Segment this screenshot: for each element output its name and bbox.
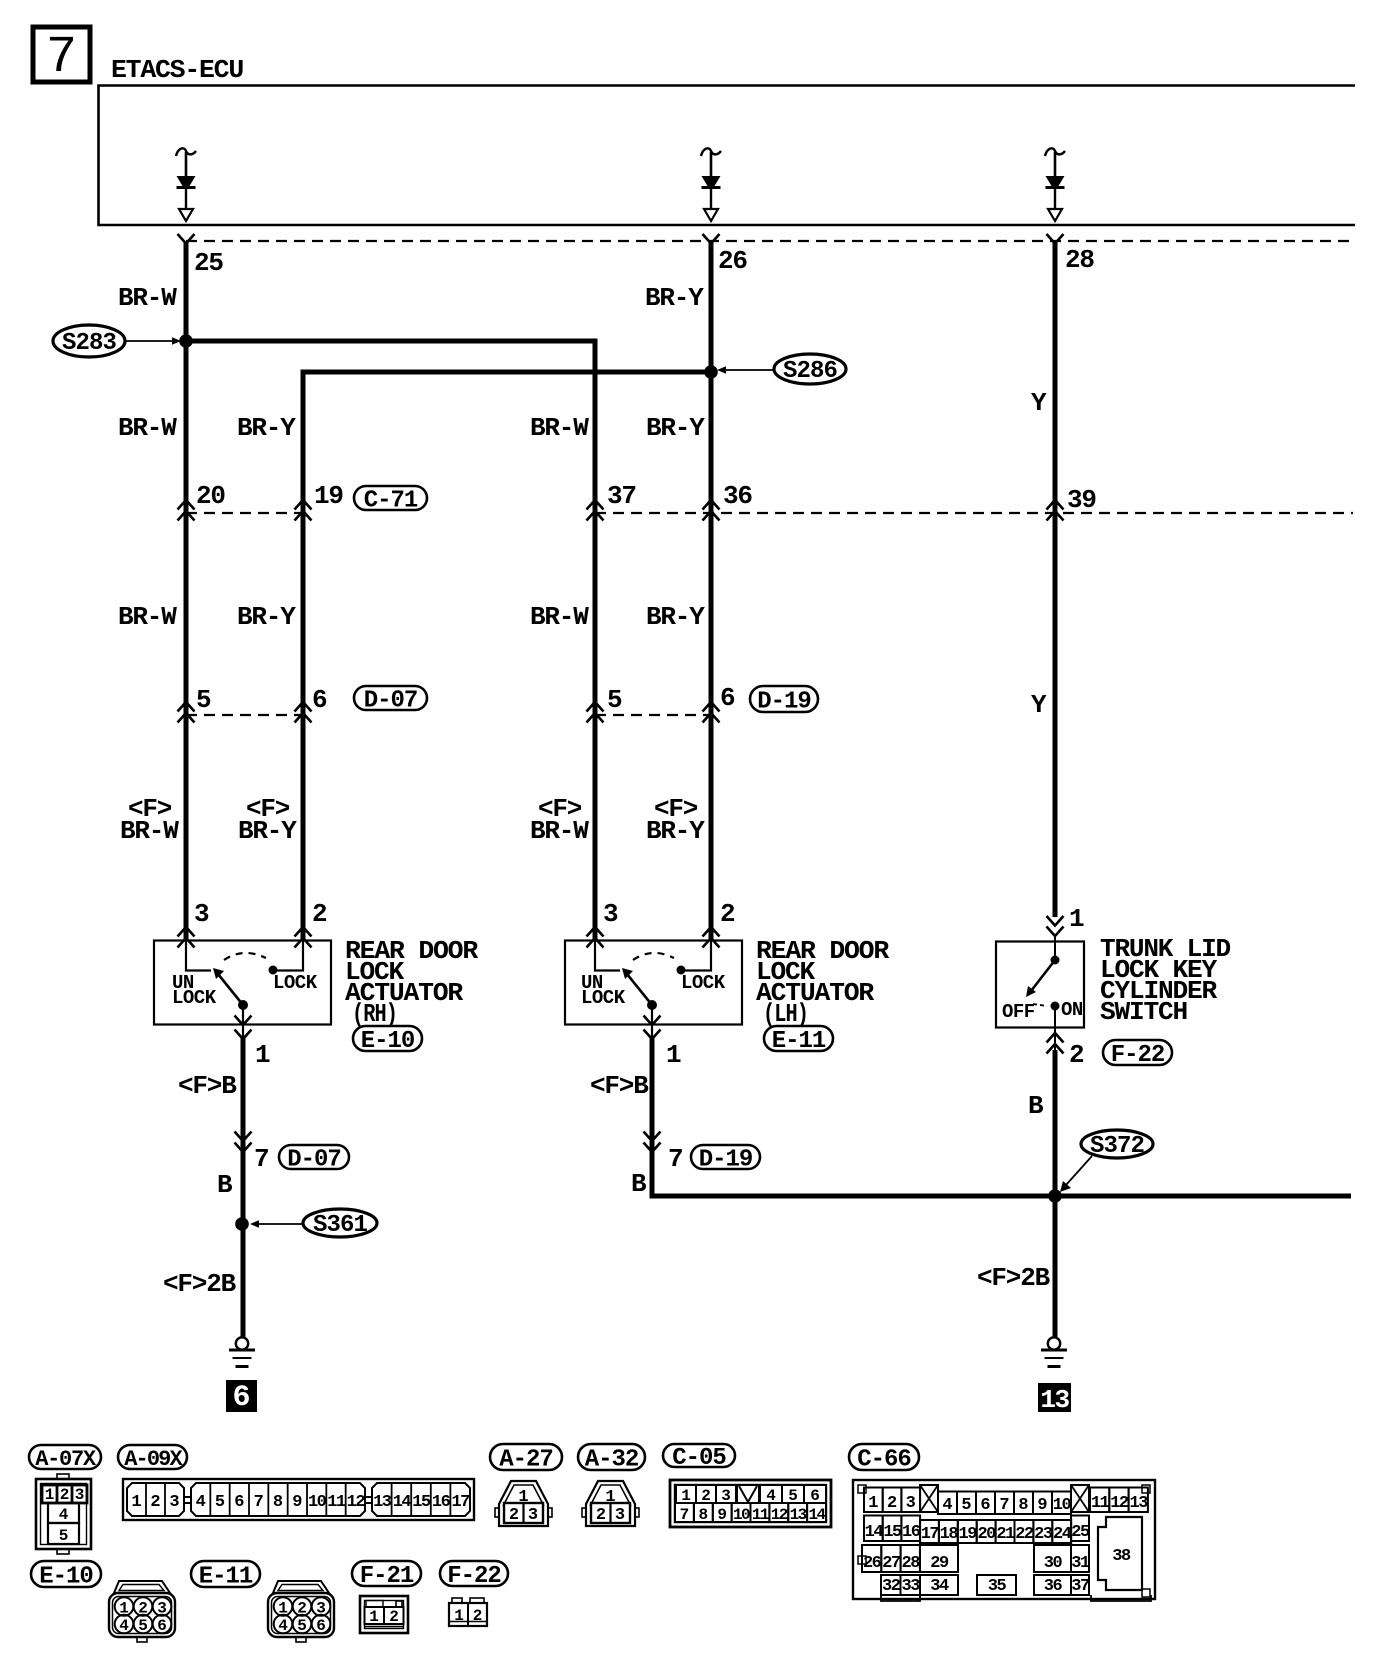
svg-text:13: 13 [1130,1494,1149,1513]
svg-text:6: 6 [980,1496,990,1515]
connector label F-22 bottom [440,1561,508,1586]
svg-text:OFF: OFF [1002,1001,1035,1023]
svg-text:BR-W: BR-W [118,602,177,632]
connector label A-27 [490,1444,562,1470]
svg-text:11: 11 [752,1506,769,1524]
diode inside ECU at x=711 [701,148,721,221]
switch arm with arrowhead [218,974,243,1005]
svg-text:LOCK: LOCK [172,987,217,1009]
svg-text:32: 32 [882,1577,901,1596]
svg-text:7: 7 [254,1493,264,1512]
svg-text:BR-Y: BR-Y [238,816,297,846]
connector label F-22 [1103,1040,1172,1065]
rear door lock actuator box LH [565,941,742,1025]
svg-text:16: 16 [902,1523,921,1542]
connector exit chevron pin 28 [1047,234,1064,244]
connector label E-11 bottom [191,1561,260,1587]
svg-text:A-27: A-27 [499,1447,553,1474]
svg-text:21: 21 [996,1525,1015,1544]
svg-text:6: 6 [234,1493,244,1512]
connector label D-07 lower [279,1145,349,1169]
svg-text:B: B [217,1170,233,1200]
svg-text:1: 1 [454,1607,464,1625]
wire pin1 LH actuator to ground bus (black) [652,1038,1351,1196]
svg-text:D-19: D-19 [757,689,811,716]
svg-text:<F>B: <F>B [590,1071,649,1101]
svg-text:3: 3 [194,899,209,929]
svg-text:2: 2 [887,1494,897,1513]
svg-text:33: 33 [902,1577,921,1596]
svg-text:S361: S361 [313,1212,368,1239]
svg-text:6: 6 [157,1617,167,1635]
chevrons pin 5 [178,702,195,723]
svg-text:19: 19 [959,1525,978,1544]
svg-text:(LH): (LH) [763,999,808,1029]
connector label E-10 bottom [31,1561,101,1587]
splice S286 [717,354,846,385]
wire branch from splice S283 to LH actuator pin 3 [186,341,595,941]
svg-text:9: 9 [1037,1496,1047,1515]
trunk switch arm with arrowhead [1031,960,1055,991]
connector label D-07 [354,686,427,710]
chevrons pin 36 [703,500,720,521]
svg-text:C-05: C-05 [672,1445,726,1472]
svg-text:25: 25 [1071,1523,1090,1542]
svg-text:7: 7 [254,1144,268,1174]
svg-text:4: 4 [196,1493,206,1512]
svg-text:2: 2 [596,1506,606,1525]
svg-text:BR-W: BR-W [530,816,589,846]
svg-text:13: 13 [790,1506,807,1524]
svg-text:8: 8 [273,1493,283,1512]
connector label D-19 [750,686,818,712]
svg-text:7: 7 [46,28,77,87]
connector exit chevron pin 26 [703,234,720,244]
connector D-19 dashed line [595,714,711,716]
svg-text:6: 6 [720,683,735,713]
switch pole dot [647,1000,657,1010]
svg-text:4: 4 [119,1617,129,1635]
ECU box outline [99,86,1356,226]
chevrons out of actuator pin 1 [644,1016,661,1040]
svg-text:27: 27 [882,1554,901,1573]
svg-text:<F>2B: <F>2B [977,1263,1051,1293]
chevrons pin 6 LH [703,702,720,723]
lock contact dot [269,966,278,975]
svg-text:37: 37 [1071,1577,1090,1596]
svg-text:16: 16 [432,1493,451,1512]
svg-text:B: B [631,1169,647,1199]
connector label E-10 [353,1026,422,1051]
svg-text:12: 12 [771,1506,788,1524]
svg-text:2: 2 [509,1506,519,1525]
svg-text:2: 2 [150,1493,160,1512]
svg-text:ON: ON [1061,999,1083,1021]
svg-text:13: 13 [1040,1385,1069,1415]
svg-text:BR-W: BR-W [118,283,177,313]
svg-text:LOCK: LOCK [681,972,726,994]
trunk switch internal bottom wire [1054,1006,1056,1052]
svg-text:BR-Y: BR-Y [646,602,705,632]
svg-text:11: 11 [327,1493,346,1512]
trunk switch pivot dot [1051,956,1060,965]
svg-text:11: 11 [1091,1494,1110,1513]
chevrons pin 20 [178,500,195,521]
svg-text:BR-Y: BR-Y [646,816,705,846]
junction dot S372 [1048,1189,1062,1203]
actuator internal lock contact wire [685,941,711,971]
svg-text:2: 2 [720,899,735,929]
svg-text:10: 10 [308,1493,327,1512]
svg-text:10: 10 [1053,1496,1072,1515]
svg-text:2: 2 [1069,1040,1084,1070]
svg-text:1: 1 [255,1040,270,1070]
svg-text:3: 3 [528,1506,538,1525]
chevrons out of trunk switch pin 2 [1047,1033,1064,1054]
chevrons pin 37 [587,500,604,521]
svg-text:24: 24 [1053,1525,1072,1544]
svg-text:4: 4 [942,1496,952,1515]
svg-text:S283: S283 [62,330,117,357]
junction dot S286 [704,365,718,379]
chevrons D-19 pin 7 [644,1132,661,1153]
rear door lock actuator box RH [154,941,331,1025]
connector drawing A-07X [36,1474,91,1554]
connector label D-19 lower [691,1145,760,1169]
svg-text:17: 17 [921,1525,940,1544]
chevrons pin 39 [1047,500,1064,521]
svg-text:6: 6 [232,1381,250,1415]
svg-text:S372: S372 [1090,1133,1144,1160]
svg-text:F-22: F-22 [447,1563,501,1590]
connector drawing A-09X [123,1479,474,1520]
chevrons into actuator pin 3 [587,927,604,948]
trunk ON contact dot [1051,1002,1060,1011]
switch pole dot [238,1000,248,1010]
svg-text:3: 3 [75,1486,85,1504]
svg-text:D-07: D-07 [364,688,418,715]
svg-text:BR-W: BR-W [118,413,177,443]
svg-text:8: 8 [1018,1496,1028,1515]
svg-text:1: 1 [1069,904,1084,934]
svg-text:5: 5 [297,1617,307,1635]
connector drawing C-05 [670,1480,831,1527]
svg-text:BR-Y: BR-Y [646,413,705,443]
svg-text:1: 1 [666,1040,681,1070]
svg-text:BR-W: BR-W [530,413,589,443]
svg-text:7: 7 [999,1496,1009,1515]
svg-text:3: 3 [906,1494,916,1513]
svg-text:8: 8 [699,1506,709,1524]
chevrons D-07 pin 7 [235,1132,252,1153]
svg-text:38: 38 [1112,1547,1131,1566]
svg-text:<F>B: <F>B [178,1071,237,1101]
connector D-07 dashed line [186,714,303,716]
svg-text:E-11: E-11 [772,1028,826,1055]
svg-text:34: 34 [930,1577,949,1596]
connector drawing A-32 [582,1481,639,1526]
actuator output wire inside box [651,1009,653,1040]
svg-text:(RH): (RH) [352,999,397,1029]
svg-text:2: 2 [389,1608,399,1626]
chevrons into actuator pin 2 [703,927,720,948]
svg-text:18: 18 [940,1525,959,1544]
svg-text:12: 12 [347,1493,366,1512]
svg-text:5: 5 [215,1493,225,1512]
svg-text:39: 39 [1067,485,1096,515]
svg-text:12: 12 [1110,1494,1129,1513]
svg-text:6: 6 [316,1617,326,1635]
svg-text:2: 2 [60,1486,70,1504]
diode inside ECU at x=186 [176,148,196,221]
svg-text:SWITCH: SWITCH [1100,997,1187,1027]
svg-text:15: 15 [883,1523,902,1542]
svg-text:BR-Y: BR-Y [237,602,296,632]
svg-text:BR-Y: BR-Y [237,413,296,443]
trunk switch internal top wire [1054,934,1056,956]
connector label E-11 [764,1026,833,1051]
chevrons into actuator pin 2 [295,927,312,948]
svg-text:36: 36 [1044,1577,1063,1596]
connector C-71 dashed line left segment [186,512,303,514]
wire trunk switch pin 2 to ground [1053,1050,1058,1338]
svg-text:3: 3 [603,899,618,929]
actuator internal unlock contact wire [595,941,620,971]
svg-text:LOCK: LOCK [273,972,318,994]
connector label A-32 [578,1444,645,1470]
svg-text:C-66: C-66 [857,1447,911,1474]
svg-text:37: 37 [607,481,636,511]
connector label A-09X [118,1445,187,1469]
svg-text:<F>2B: <F>2B [163,1269,237,1299]
svg-text:19: 19 [314,481,343,511]
svg-text:LOCK: LOCK [581,987,626,1009]
svg-text:14: 14 [865,1523,884,1542]
connector drawing C-66 [853,1480,1155,1601]
connector drawing E-11 [268,1581,334,1642]
connector label C-05 [663,1444,735,1467]
actuator output wire inside box [242,1009,244,1040]
chevrons pin 19 [295,500,312,521]
dashed throw arc [633,953,674,960]
switch arm with arrowhead [627,974,652,1005]
page number box 7 [33,27,90,87]
svg-text:3: 3 [169,1493,179,1512]
lock contact dot [677,966,686,975]
svg-text:2: 2 [473,1607,483,1625]
svg-text:5: 5 [196,685,211,715]
svg-text:6: 6 [312,685,327,715]
svg-text:30: 30 [1044,1554,1063,1573]
svg-text:E-10: E-10 [39,1564,93,1591]
svg-text:5: 5 [138,1617,148,1635]
splice S372 [1060,1130,1153,1192]
ECU connector dashed line [186,240,1353,242]
svg-text:7: 7 [680,1506,690,1524]
junction dot S361 [235,1217,249,1231]
svg-text:5: 5 [59,1527,69,1545]
dashed throw arc [224,953,266,960]
svg-text:17: 17 [451,1493,470,1512]
connector drawing F-21 [360,1596,408,1633]
svg-text:D-19: D-19 [699,1147,753,1174]
svg-text:9: 9 [292,1493,302,1512]
svg-text:36: 36 [723,481,752,511]
svg-text:15: 15 [412,1493,431,1512]
dashed link OFF-ON [1033,1004,1047,1006]
ground symbol right [1048,1337,1060,1349]
svg-text:1: 1 [868,1494,878,1513]
svg-text:28: 28 [902,1554,921,1573]
svg-text:E-11: E-11 [199,1564,253,1591]
connector drawing A-27 [495,1481,552,1526]
svg-text:4: 4 [59,1506,69,1524]
svg-text:20: 20 [196,481,225,511]
wire Y from pin 28 (node E) [1053,243,1058,917]
svg-text:10: 10 [733,1506,750,1524]
ground symbol left [236,1337,248,1349]
svg-text:Y: Y [1031,388,1047,418]
svg-text:D-07: D-07 [287,1147,341,1174]
svg-text:1: 1 [45,1486,55,1504]
junction dot S283 [179,334,193,348]
svg-text:23: 23 [1034,1525,1053,1544]
svg-text:1: 1 [369,1608,379,1626]
svg-text:29: 29 [930,1554,949,1573]
svg-text:13: 13 [373,1493,392,1512]
connector exit chevron pin 25 [178,234,195,244]
svg-text:F-22: F-22 [1111,1042,1165,1069]
connector label C-66 [849,1444,919,1470]
diode inside ECU at x=1055 [1045,148,1065,221]
svg-text:5: 5 [961,1496,971,1515]
connector label C-71 [354,486,427,510]
ground number 13 box [1038,1383,1071,1415]
svg-text:20: 20 [977,1525,996,1544]
chevrons into actuator pin 3 [178,927,195,948]
connector drawing F-22 [449,1598,487,1626]
ground number 6 box [226,1380,257,1415]
connector label A-07X [29,1445,101,1469]
wire pin1 RH actuator to ground (black) [241,1038,246,1338]
svg-text:26: 26 [718,246,747,276]
svg-text:14: 14 [808,1506,826,1524]
svg-text:S286: S286 [783,358,838,385]
svg-text:28: 28 [1065,245,1094,275]
svg-text:2: 2 [312,899,327,929]
chevrons pin 5 LH [587,702,604,723]
wire BR-Y from pin 26 (node D) [709,243,714,941]
connector label F-21 bottom [352,1561,421,1586]
chevrons out of actuator pin 1 [235,1016,252,1040]
svg-text:14: 14 [393,1493,412,1512]
svg-text:1: 1 [131,1493,141,1512]
actuator internal lock contact wire [277,941,303,971]
splice S283 [53,325,181,357]
connector C-71 dashed line right segment [595,512,1353,514]
svg-text:B: B [1028,1091,1044,1121]
svg-text:5: 5 [607,685,622,715]
actuator internal unlock contact wire [186,941,211,971]
svg-text:E-10: E-10 [361,1028,415,1055]
svg-text:9: 9 [717,1506,727,1524]
svg-text:A-32: A-32 [585,1447,639,1474]
svg-text:BR-W: BR-W [120,816,179,846]
svg-text:Y: Y [1031,690,1047,720]
svg-text:BR-Y: BR-Y [645,283,704,313]
chevrons pin 6 [295,702,312,723]
svg-text:22: 22 [1015,1525,1034,1544]
connector drawing E-10 [109,1581,175,1642]
svg-text:A-07X: A-07X [35,1447,97,1472]
svg-text:BR-W: BR-W [530,602,589,632]
svg-text:7: 7 [668,1144,682,1174]
svg-text:4: 4 [278,1617,288,1635]
svg-text:35: 35 [988,1577,1007,1596]
svg-text:26: 26 [863,1554,882,1573]
svg-text:C-71: C-71 [364,488,418,515]
chevrons into trunk switch pin 1 [1047,916,1064,936]
wire branch from splice S286 to RH actuator pin 2 [303,372,711,941]
svg-text:3: 3 [615,1506,625,1525]
wire BR-W from pin 25 (node A) [184,243,189,941]
svg-text:F-21: F-21 [360,1563,414,1590]
svg-text:31: 31 [1071,1554,1090,1573]
trunk lid lock key cylinder switch box [996,942,1084,1028]
splice S361 [250,1209,377,1239]
svg-text:ETACS-ECU: ETACS-ECU [111,55,243,85]
svg-text:25: 25 [194,248,223,278]
svg-text:A-09X: A-09X [124,1447,183,1472]
